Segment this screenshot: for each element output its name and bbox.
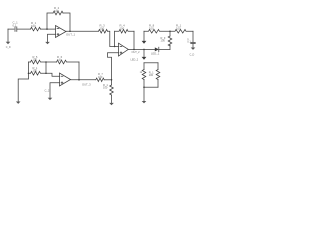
node junction minus U2 [114, 46, 116, 48]
wire diode row up to rail via R9 [169, 45, 171, 49]
ground GND5 (box) [142, 101, 147, 103]
label R13 value [103, 83, 108, 90]
resistor R6 (feedback U3) [57, 60, 80, 64]
wire R1 to U1 inverting input [41, 28, 56, 30]
wire left vertical input [18, 62, 28, 101]
svg-text:C_D: C_D [190, 54, 195, 57]
svg-text:OUT_2: OUT_2 [132, 51, 141, 54]
resistor R8 (right rail) [144, 29, 170, 33]
resistor R2 (feedback U1) [53, 11, 63, 15]
resistor R5 [31, 60, 47, 64]
wire R9 top [169, 31, 171, 36]
wire U2 output row [128, 48, 155, 50]
svg-text:100: 100 [176, 26, 181, 30]
capacitor C1 [15, 27, 31, 32]
wire to R13 [111, 80, 113, 85]
arrow connector A2 [142, 57, 147, 60]
wire top rail mid [46, 61, 57, 63]
svg-text:OUT_1: OUT_1 [66, 33, 75, 37]
svg-text:0.1: 0.1 [13, 23, 17, 27]
wire parallel tie vertical [45, 62, 47, 73]
svg-text:100: 100 [31, 24, 36, 28]
wire R4 right leg to output node [133, 31, 135, 49]
capacitor C3 plate [191, 42, 196, 43]
svg-text:C_D: C_D [6, 46, 11, 49]
ground GND3 (mid bottom) [109, 103, 114, 105]
node junction arrow column [143, 49, 145, 51]
node junction right rail R9 [169, 30, 171, 32]
wire arrow column to RC box [143, 49, 145, 57]
wire feedback right leg [63, 13, 70, 31]
arrow connector A1 [142, 41, 147, 44]
svg-text:100: 100 [161, 39, 166, 43]
wire right rail arrow tap [143, 31, 145, 41]
resistor R3 [99, 29, 108, 33]
resistor R11 (mid) [31, 71, 47, 75]
svg-text:100: 100 [57, 58, 62, 62]
svg-text:100: 100 [120, 26, 125, 30]
label R5 value [33, 55, 38, 62]
wire R3 to U2 inverting leg [108, 31, 110, 46]
resistor R14 (box right) [156, 63, 160, 87]
label R6 value [57, 55, 63, 62]
wire U3 + input to ground [50, 83, 60, 98]
resistor R7 (output row) [96, 78, 104, 81]
node junction left vertical [28, 72, 30, 74]
svg-text:100: 100 [100, 26, 105, 30]
wire box to ground [143, 87, 145, 101]
diode LED_1 [155, 47, 170, 51]
label R4 value [120, 23, 126, 30]
wire feedback left leg [47, 13, 53, 29]
ground GND2 (U1 +) [45, 42, 50, 44]
svg-text:0.1: 0.1 [187, 39, 191, 43]
resistor R4 (feedback U2) [115, 29, 134, 33]
node junction U3 output [78, 79, 80, 81]
svg-text:100: 100 [33, 58, 38, 62]
label C3 value [187, 37, 191, 44]
svg-text:OUT_3: OUT_3 [82, 83, 91, 87]
label R2 value [54, 6, 60, 13]
label R3 value [100, 23, 106, 30]
wire feedback right leg U3 [78, 62, 80, 80]
ground GND6 (bottom left) [16, 102, 21, 104]
resistor R1 [31, 27, 41, 31]
label C1 value [13, 20, 19, 27]
wire C3 to ground [192, 44, 194, 48]
node junction R4/output [133, 49, 135, 51]
svg-text:100: 100 [54, 9, 59, 13]
node junction tie mid [45, 72, 47, 74]
label R10 value [176, 23, 182, 30]
resistor R9 (vertical) [168, 36, 172, 46]
svg-text:LED_2: LED_2 [131, 58, 139, 61]
svg-text:100: 100 [33, 68, 38, 72]
resistor R10 (right rail 2) [170, 29, 193, 33]
label R9 value [161, 36, 166, 43]
wire U2 + input jog [108, 53, 119, 80]
wire U3 output row [71, 79, 96, 81]
label R7 value [98, 72, 103, 79]
resistor R13 (vertical to ground) [110, 85, 114, 95]
ground GND1 (input left) [6, 29, 11, 44]
svg-text:100: 100 [149, 73, 154, 77]
node junction output U1 [69, 30, 71, 32]
node junction plus-leg/row [111, 79, 113, 81]
wire U1 output row [66, 30, 99, 32]
wire R7 to plus-leg column [104, 79, 111, 81]
svg-text:100: 100 [98, 75, 103, 79]
parallel box top rail [144, 62, 158, 64]
stage 3 mid rail [29, 72, 31, 74]
wire U2 inverting stub [110, 45, 119, 47]
op-amp U2 [119, 43, 129, 56]
node junction at feedback tap [46, 28, 48, 30]
node junction box bottom [143, 86, 145, 88]
label R1 value [31, 21, 37, 28]
svg-text:C_2: C_2 [45, 89, 50, 93]
svg-text:1k: 1k [140, 71, 143, 74]
op-amp U1 [56, 26, 67, 38]
label R11 value [33, 66, 38, 73]
wire R13 to ground [111, 95, 113, 103]
wire input row to C1 [8, 28, 14, 30]
wire U2 feedback left leg [114, 31, 116, 46]
label R14 value [149, 70, 154, 77]
ground GND7 (U3 +) [48, 98, 53, 100]
svg-text:LED_1: LED_1 [151, 52, 160, 56]
stage 3 top rail [29, 61, 31, 63]
ground GND4 (right) [191, 48, 196, 50]
parallel box bottom rail [144, 86, 158, 88]
wire mid rail jog to U3 minus [46, 73, 60, 76]
svg-text:100: 100 [149, 26, 154, 30]
op-amp U3 [60, 73, 71, 86]
svg-text:100: 100 [103, 86, 108, 90]
wire right end down [192, 31, 194, 42]
label R8 value [149, 23, 155, 30]
node junction tie top [45, 61, 47, 63]
wire U1 + input to ground [48, 34, 56, 42]
resistor R12 (box left) [142, 63, 146, 87]
